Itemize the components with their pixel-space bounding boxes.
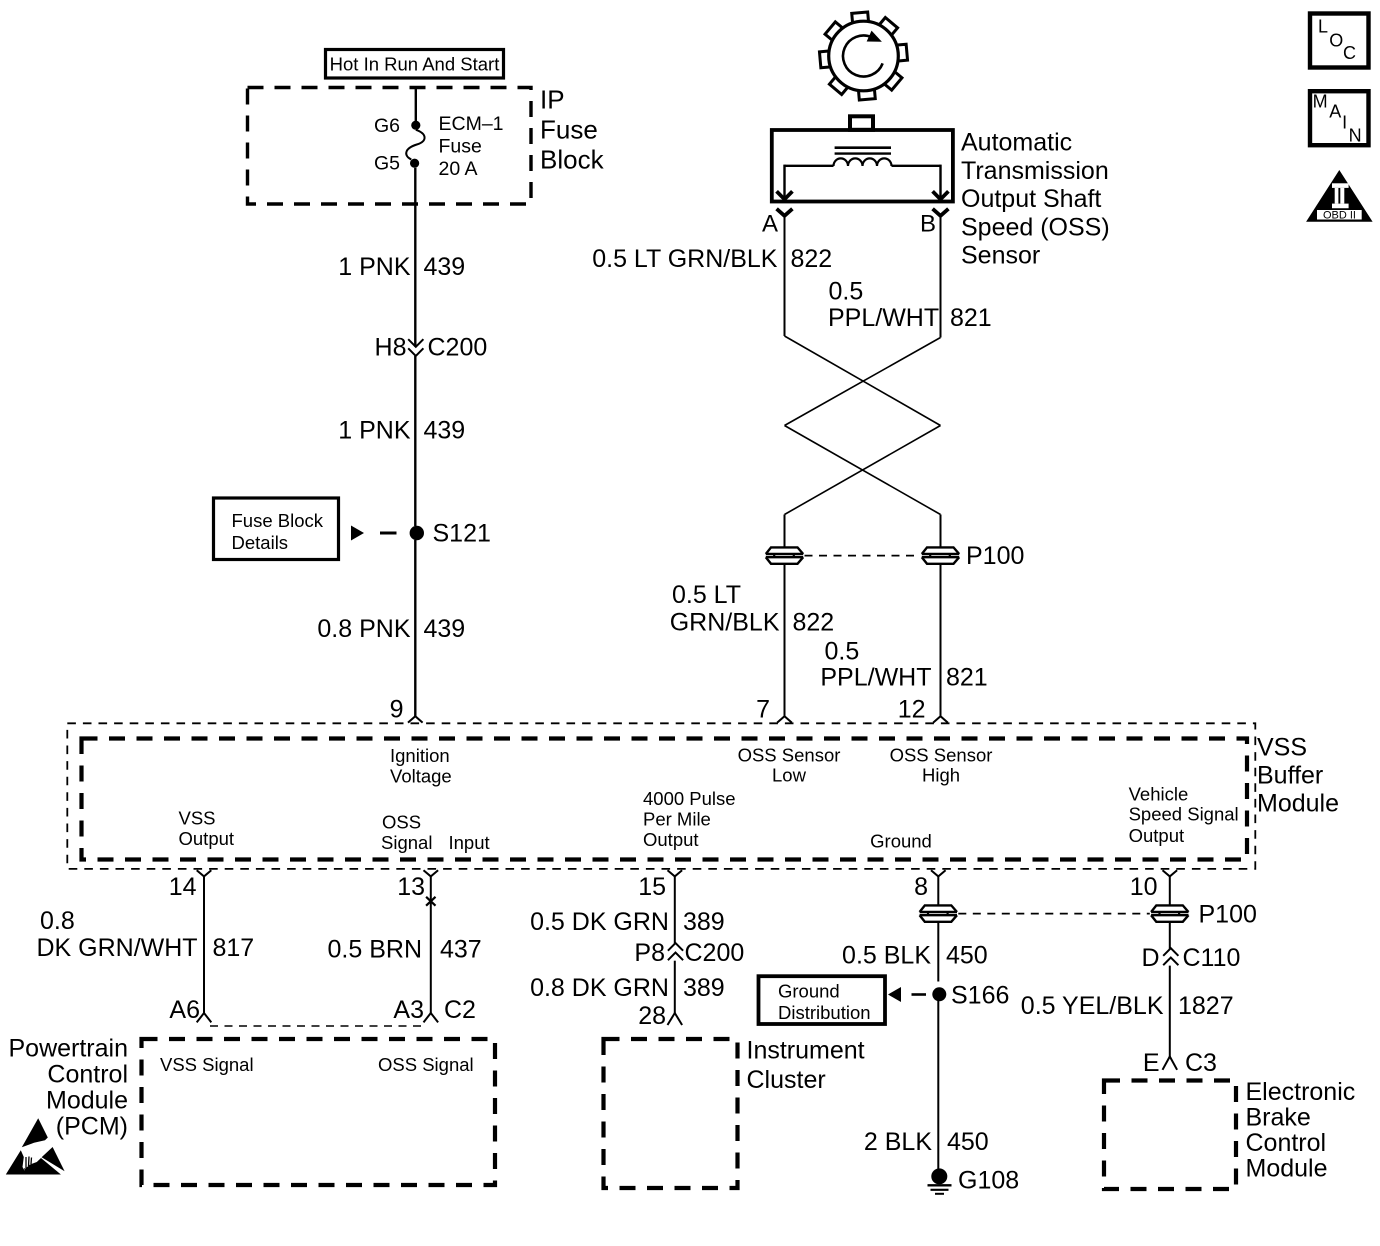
svg-text:S166: S166 [951, 982, 1009, 1010]
svg-text:G6: G6 [374, 115, 400, 137]
svg-text:0.8 PNK: 0.8 PNK [317, 615, 410, 643]
svg-text:P8: P8 [634, 939, 665, 967]
svg-text:A6: A6 [169, 996, 200, 1024]
svg-text:C200: C200 [428, 334, 488, 362]
svg-text:Brake: Brake [1246, 1104, 1311, 1132]
svg-text:Output: Output [643, 829, 699, 850]
svg-text:S121: S121 [433, 520, 491, 548]
svg-text:13: 13 [397, 873, 425, 901]
svg-text:Ground: Ground [778, 981, 840, 1002]
svg-text:Input: Input [449, 832, 490, 853]
svg-text:Transmission: Transmission [961, 157, 1109, 185]
svg-text:Cluster: Cluster [747, 1066, 826, 1094]
svg-text:0.5: 0.5 [825, 638, 860, 666]
svg-text:A: A [762, 211, 778, 238]
svg-text:Output: Output [1129, 825, 1185, 846]
svg-text:C110: C110 [1183, 944, 1241, 972]
svg-text:822: 822 [793, 609, 835, 637]
svg-text:DK GRN/WHT: DK GRN/WHT [36, 934, 197, 962]
svg-text:Control: Control [47, 1061, 128, 1089]
svg-text:L: L [1318, 17, 1328, 37]
svg-text:IP: IP [540, 85, 565, 115]
svg-text:Distribution: Distribution [778, 1002, 871, 1023]
svg-text:I: I [1342, 113, 1347, 133]
svg-text:14: 14 [169, 873, 197, 901]
svg-text:817: 817 [213, 934, 255, 962]
svg-text:439: 439 [424, 253, 466, 281]
svg-text:Hot In Run And Start: Hot In Run And Start [330, 54, 500, 75]
svg-text:1827: 1827 [1178, 992, 1234, 1020]
svg-text:Fuse: Fuse [439, 136, 482, 158]
svg-text:Vehicle: Vehicle [1129, 783, 1189, 804]
svg-text:Electronic: Electronic [1246, 1078, 1356, 1106]
svg-text:1 PNK: 1 PNK [338, 417, 411, 445]
svg-text:Instrument: Instrument [747, 1036, 865, 1064]
svg-text:C200: C200 [685, 939, 745, 967]
svg-text:G108: G108 [958, 1167, 1019, 1195]
svg-text:Ground: Ground [870, 831, 932, 852]
svg-text:0.5 DK GRN: 0.5 DK GRN [530, 908, 669, 936]
svg-text:High: High [922, 765, 960, 786]
svg-text:0.5 YEL/BLK: 0.5 YEL/BLK [1021, 992, 1164, 1020]
svg-text:439: 439 [424, 417, 466, 445]
svg-text:439: 439 [424, 615, 466, 643]
svg-text:OSS Sensor: OSS Sensor [890, 745, 993, 766]
svg-text:0.5 BLK: 0.5 BLK [842, 942, 931, 970]
svg-text:VSS: VSS [179, 808, 216, 829]
svg-text:4000 Pulse: 4000 Pulse [643, 788, 736, 809]
svg-text:Fuse: Fuse [540, 115, 598, 145]
svg-text:821: 821 [946, 664, 988, 692]
svg-text:M: M [1313, 91, 1328, 111]
svg-text:(PCM): (PCM) [56, 1113, 128, 1141]
svg-text:A3: A3 [393, 996, 424, 1024]
svg-text:C3: C3 [1185, 1049, 1217, 1077]
svg-text:C: C [1343, 43, 1356, 63]
svg-text:OSS Signal: OSS Signal [378, 1054, 474, 1075]
svg-text:OBD II: OBD II [1323, 209, 1356, 221]
svg-text:12: 12 [898, 696, 926, 724]
svg-text:Details: Details [232, 532, 289, 553]
svg-text:PPL/WHT: PPL/WHT [820, 664, 931, 692]
svg-text:GRN/BLK: GRN/BLK [670, 609, 780, 637]
svg-text:389: 389 [683, 908, 725, 936]
svg-text:0.5 BRN: 0.5 BRN [328, 936, 422, 964]
svg-text:VSS: VSS [1257, 734, 1307, 762]
svg-text:Ignition: Ignition [390, 745, 450, 766]
svg-text:Sensor: Sensor [961, 242, 1040, 270]
svg-text:437: 437 [440, 936, 482, 964]
svg-text:7: 7 [756, 696, 770, 724]
svg-text:9: 9 [390, 696, 404, 724]
svg-text:822: 822 [791, 245, 833, 273]
svg-text:Powertrain: Powertrain [9, 1035, 129, 1063]
svg-text:Module: Module [46, 1087, 128, 1115]
svg-text:15: 15 [638, 873, 666, 901]
svg-text:0.5 LT: 0.5 LT [672, 581, 741, 609]
svg-text:G5: G5 [374, 153, 400, 175]
svg-text:Per Mile: Per Mile [643, 809, 711, 830]
svg-text:VSS Signal: VSS Signal [160, 1054, 254, 1075]
svg-text:P100: P100 [1199, 901, 1257, 929]
svg-text:0.8 DK GRN: 0.8 DK GRN [530, 974, 669, 1002]
svg-text:Low: Low [772, 765, 807, 786]
svg-text:0.5: 0.5 [829, 278, 864, 306]
svg-text:PPL/WHT: PPL/WHT [828, 304, 939, 332]
svg-text:Block: Block [540, 145, 605, 175]
svg-text:N: N [1349, 126, 1362, 146]
svg-text:Control: Control [1246, 1129, 1327, 1157]
svg-text:ECM–1: ECM–1 [439, 113, 504, 135]
svg-text:C2: C2 [444, 996, 476, 1024]
svg-text:Voltage: Voltage [390, 766, 452, 787]
svg-text:OSS Sensor: OSS Sensor [738, 745, 841, 766]
svg-text:Signal: Signal [381, 832, 432, 853]
svg-text:E: E [1143, 1049, 1160, 1077]
svg-text:A: A [1329, 102, 1341, 122]
svg-text:28: 28 [638, 1002, 666, 1030]
svg-text:B: B [920, 211, 936, 238]
svg-text:Buffer: Buffer [1257, 762, 1323, 790]
svg-text:20 A: 20 A [439, 158, 478, 180]
svg-text:10: 10 [1130, 873, 1158, 901]
svg-text:D: D [1141, 944, 1159, 972]
svg-text:O: O [1329, 30, 1343, 50]
svg-text:389: 389 [683, 974, 725, 1002]
svg-text:0.8: 0.8 [40, 907, 75, 935]
svg-text:8: 8 [914, 873, 928, 901]
svg-text:Automatic: Automatic [961, 129, 1072, 157]
svg-text:2 BLK: 2 BLK [864, 1128, 932, 1156]
svg-text:Output: Output [179, 828, 235, 849]
svg-text:450: 450 [946, 942, 988, 970]
svg-text:450: 450 [947, 1128, 989, 1156]
svg-text:Speed (OSS): Speed (OSS) [961, 213, 1110, 241]
svg-text:0.5 LT GRN/BLK: 0.5 LT GRN/BLK [592, 245, 778, 273]
svg-text:H8: H8 [375, 334, 407, 362]
svg-text:P100: P100 [966, 542, 1024, 570]
svg-text:Output Shaft: Output Shaft [961, 185, 1101, 213]
svg-text:Fuse Block: Fuse Block [232, 510, 324, 531]
svg-text:Module: Module [1246, 1155, 1328, 1183]
svg-text:Speed Signal: Speed Signal [1129, 804, 1239, 825]
svg-text:821: 821 [950, 304, 992, 332]
svg-text:1 PNK: 1 PNK [338, 253, 411, 281]
svg-text:Module: Module [1257, 790, 1339, 818]
svg-text:OSS: OSS [382, 812, 421, 833]
